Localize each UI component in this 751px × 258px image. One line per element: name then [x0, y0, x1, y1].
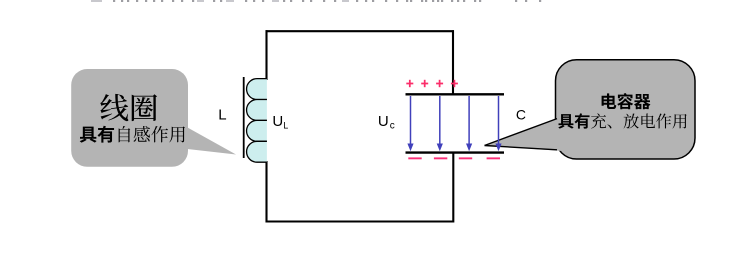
svg-text:c: c — [390, 120, 395, 131]
callout bubble for coil — [71, 69, 188, 167]
svg-text:L: L — [283, 121, 288, 131]
capacitor C bottom plate — [406, 151, 505, 153]
wire: top side of loop — [266, 30, 455, 32]
inductor L coil (4 turns) — [247, 79, 267, 163]
text 具有自感作用 (has self-induction effect) — [80, 126, 185, 143]
wire: right side upper segment (to capacitor top plate) — [452, 30, 454, 95]
callout tail (points to capacitor) — [485, 117, 563, 151]
callout bubble for capacitor — [556, 60, 696, 159]
svg-text:U: U — [272, 113, 283, 130]
negative charge - signs below bottom plate — [408, 157, 500, 159]
svg-text:U: U — [378, 113, 389, 130]
cropped title text (bottom fragments of a heading) — [91, 0, 541, 2]
wire: left side upper segment (above coil) — [265, 30, 267, 80]
positive charge + signs above top plate — [406, 80, 458, 87]
wire: right side lower segment (from capacitor bottom plate) — [452, 152, 454, 223]
inductor L core bar — [243, 77, 245, 158]
text 具有充、放电作用 (can charge and discharge) — [558, 113, 686, 128]
wire: bottom side of loop — [266, 220, 455, 222]
capacitor C top plate — [406, 93, 505, 95]
svg-text:C: C — [516, 107, 526, 123]
text 电容器 (capacitor) — [602, 93, 651, 109]
wire: left side lower segment (below coil) — [265, 161, 267, 223]
svg-text:L: L — [218, 107, 226, 124]
callout tail (points to coil) — [183, 125, 236, 155]
electric field arrows between plates — [407, 96, 501, 151]
text 线圈 (coil) — [100, 94, 157, 121]
